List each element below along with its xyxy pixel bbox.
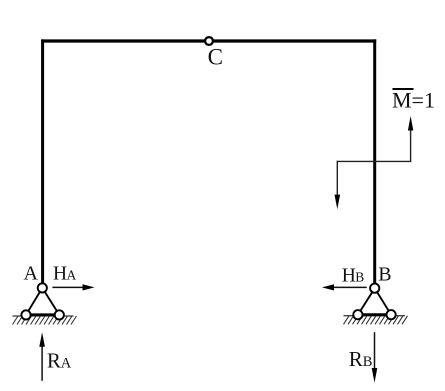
- svg-text:B: B: [363, 354, 373, 370]
- support B triangle legs: [358, 288, 391, 315]
- svg-text:A: A: [67, 268, 77, 283]
- support A left roller circle: [21, 310, 30, 319]
- support B ground line: [344, 315, 406, 317]
- svg-text:C: C: [208, 44, 223, 69]
- support B right roller circle: [387, 310, 396, 319]
- label M=1 with overbar: [392, 88, 435, 113]
- svg-text:H: H: [342, 265, 356, 286]
- label RB: [349, 347, 373, 371]
- svg-text:R: R: [47, 348, 61, 372]
- reaction RA arrow: [39, 332, 45, 381]
- support A hatching: [13, 316, 77, 325]
- support B left roller circle: [353, 310, 362, 319]
- support B pin circle: [370, 284, 379, 293]
- support B base line: [358, 313, 391, 316]
- moment couple horizontal link: [337, 160, 411, 162]
- right column: [373, 39, 376, 284]
- svg-text:R: R: [349, 347, 363, 371]
- reaction HA arrow: [52, 284, 94, 290]
- svg-text:B: B: [378, 264, 391, 286]
- moment couple down arrow: [335, 161, 341, 210]
- reaction RB arrow: [372, 332, 378, 382]
- support A base line: [26, 313, 59, 316]
- hinge C: [205, 37, 213, 45]
- support B hatching: [344, 316, 408, 325]
- top beam: [41, 39, 376, 42]
- support A triangle legs: [26, 288, 59, 315]
- left column: [41, 39, 44, 283]
- support A pin circle: [38, 283, 47, 292]
- support A right roller circle: [55, 310, 64, 319]
- moment couple up arrow: [408, 116, 413, 161]
- support A ground line: [13, 315, 74, 317]
- svg-text:B: B: [355, 269, 364, 284]
- svg-text:A: A: [61, 355, 72, 371]
- label HA: [53, 264, 77, 285]
- label RA: [47, 348, 72, 372]
- svg-text:M=1: M=1: [392, 88, 435, 113]
- svg-text:A: A: [24, 263, 39, 285]
- reaction HB arrow: [322, 284, 367, 290]
- label HB: [342, 265, 365, 286]
- svg-text:H: H: [53, 264, 67, 285]
